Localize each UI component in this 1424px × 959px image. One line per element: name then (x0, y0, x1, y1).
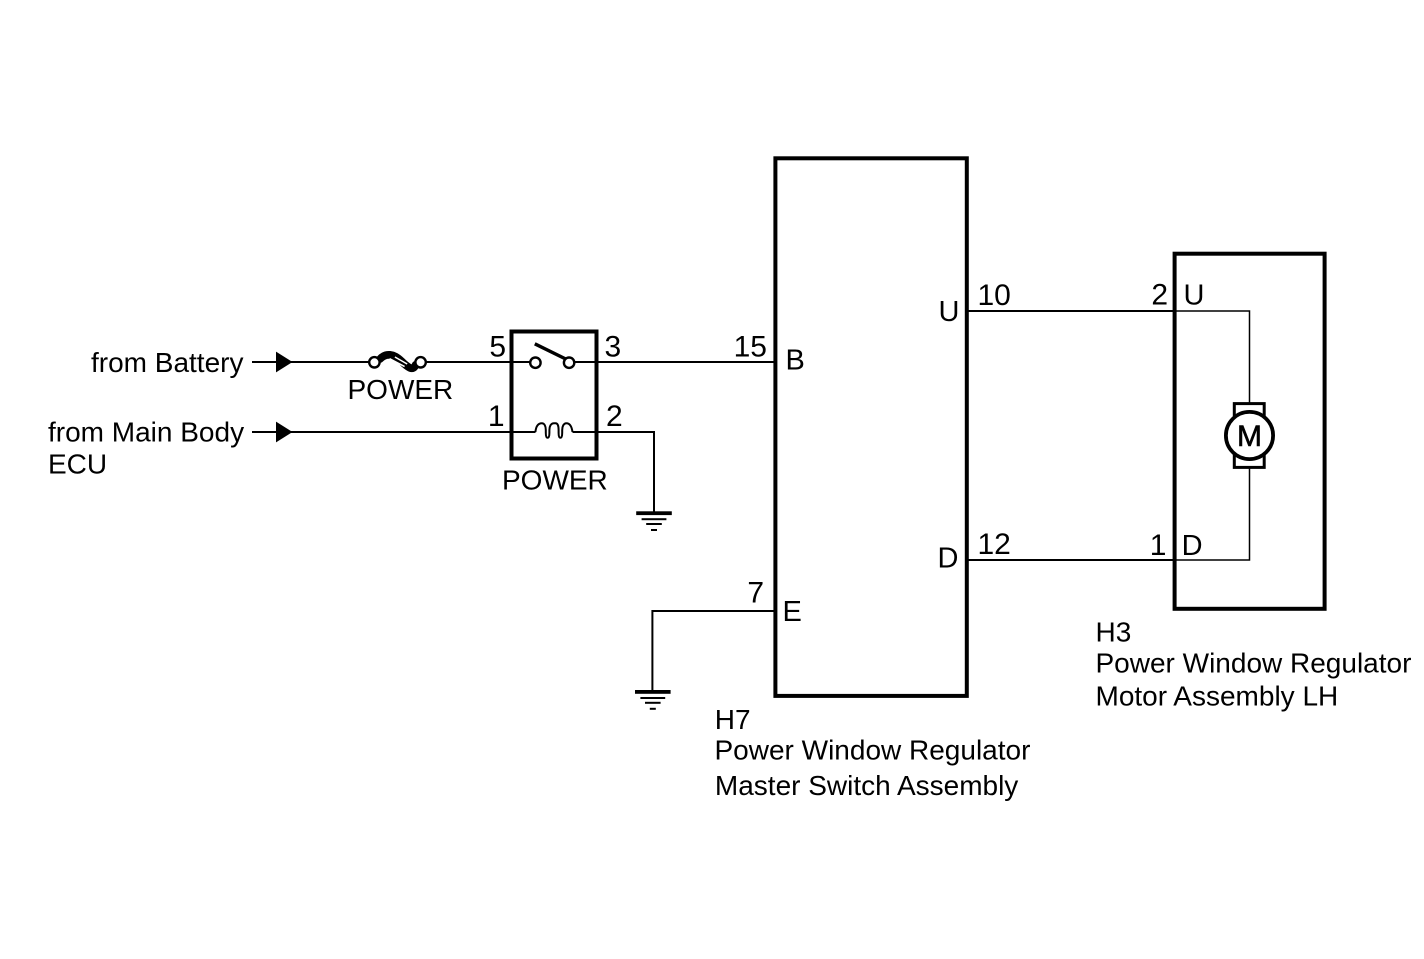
svg-text:15: 15 (734, 331, 767, 364)
svg-text:2: 2 (606, 400, 623, 433)
svg-text:from Battery: from Battery (91, 347, 243, 378)
svg-text:U: U (1184, 280, 1205, 312)
wire H3 internal D to motor (1176, 467, 1250, 560)
H7 master switch box (775, 158, 966, 696)
wire H7 pin E (7) to ground G2 (652, 611, 773, 690)
svg-text:Power Window Regulator: Power Window Regulator (715, 735, 1031, 766)
svg-text:POWER: POWER (502, 464, 608, 495)
svg-text:Master Switch Assembly: Master Switch Assembly (715, 770, 1018, 801)
svg-text:3: 3 (605, 331, 622, 364)
H3 motor assembly box (1175, 254, 1325, 609)
arrow on battery wire (276, 352, 293, 373)
svg-text:from Main Body: from Main Body (48, 417, 244, 448)
svg-text:D: D (938, 543, 959, 575)
svg-text:Motor Assembly LH: Motor Assembly LH (1096, 681, 1339, 712)
svg-text:H3: H3 (1096, 617, 1132, 648)
wire relay pin 3 to H7 pin B (15) (574, 361, 774, 363)
motor M1 body (1226, 412, 1273, 459)
svg-text:M: M (1237, 420, 1262, 453)
svg-text:1: 1 (488, 400, 505, 433)
arrow on ECU wire (276, 422, 293, 443)
wire from Battery to fuse (252, 361, 369, 363)
svg-text:B: B (786, 345, 805, 377)
svg-text:H7: H7 (715, 704, 751, 735)
wire H3 internal U to motor (1176, 311, 1250, 403)
relay switch contact right (564, 358, 574, 368)
wire H7 D(12) to H3 pin 1 (969, 559, 1175, 561)
svg-text:12: 12 (978, 528, 1011, 561)
wire relay pin 2 to ground G1 (573, 432, 655, 512)
svg-text:10: 10 (978, 279, 1011, 312)
relay switch contact left (530, 358, 540, 368)
svg-text:POWER: POWER (348, 374, 454, 405)
relay switch blade (535, 344, 567, 360)
svg-text:ECU: ECU (48, 448, 107, 479)
svg-text:7: 7 (747, 577, 764, 610)
ground G1 (636, 511, 672, 531)
relay coil (535, 423, 572, 438)
svg-text:E: E (783, 596, 802, 628)
label H3 Power Window Regulator Motor Assembly LH (1096, 617, 1412, 712)
svg-text:U: U (939, 296, 960, 328)
fuse POWER (369, 355, 426, 368)
svg-text:5: 5 (489, 331, 506, 364)
svg-text:D: D (1182, 530, 1203, 562)
svg-text:2: 2 (1151, 279, 1168, 312)
label H7 Power Window Regulator Master Switch Assembly (715, 704, 1031, 801)
ground G2 (635, 690, 671, 710)
wire H7 U(10) to H3 pin 2 (969, 310, 1175, 312)
motor M1 brush cap top (1234, 404, 1264, 417)
wire fuse to relay pin 5 contact (426, 361, 531, 363)
svg-text:Power Window Regulator: Power Window Regulator (1096, 648, 1412, 679)
wire from Main Body ECU to relay coil pin 1 (252, 431, 536, 433)
relay POWER box (512, 332, 597, 459)
motor M1 brush cap bottom (1234, 454, 1264, 467)
svg-text:1: 1 (1150, 529, 1167, 562)
